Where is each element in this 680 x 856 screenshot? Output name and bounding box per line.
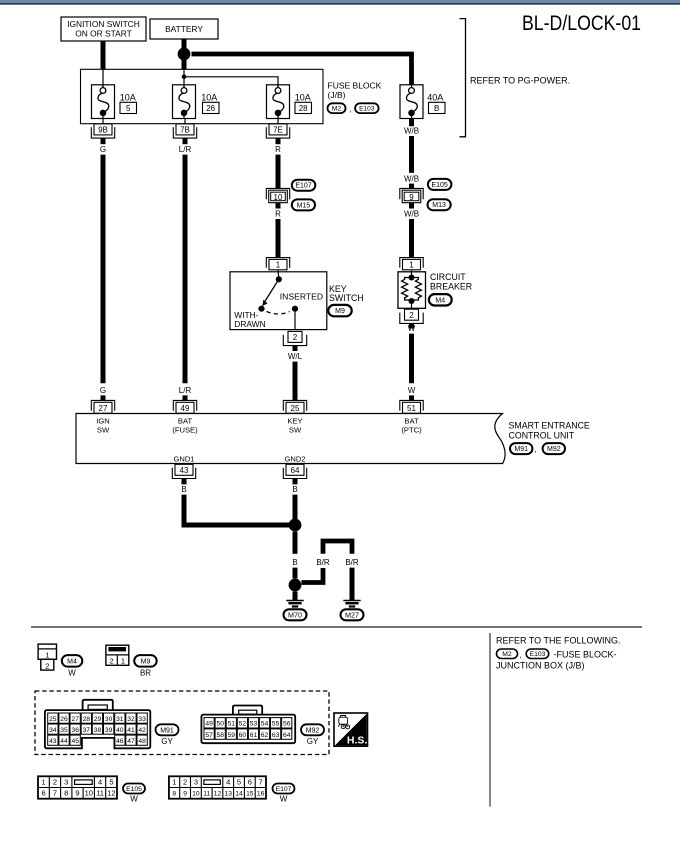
- svg-text:12: 12: [214, 791, 222, 798]
- wire B/R upper run: [323, 541, 352, 554]
- svg-text:B/R: B/R: [316, 558, 330, 567]
- svg-text:M2: M2: [502, 651, 512, 658]
- svg-text:55: 55: [272, 721, 280, 728]
- svg-text:BL-D/LOCK-01: BL-D/LOCK-01: [522, 12, 641, 35]
- svg-text:26: 26: [60, 716, 68, 723]
- svg-text:54: 54: [261, 721, 269, 728]
- label SMART ENTRANCE CONTROL UNIT: [509, 421, 590, 441]
- connector ref E105: [428, 179, 452, 190]
- svg-text:10: 10: [85, 789, 93, 798]
- svg-text:46: 46: [116, 738, 124, 745]
- svg-text:E103: E103: [530, 651, 546, 658]
- svg-text:51: 51: [407, 404, 416, 413]
- svg-text:(PTC): (PTC): [401, 425, 422, 434]
- svg-text:REFER TO PG-POWER.: REFER TO PG-POWER.: [470, 75, 570, 85]
- junction ground splice: [289, 579, 302, 592]
- svg-text:10A: 10A: [201, 92, 217, 102]
- svg-text:44: 44: [60, 738, 68, 745]
- svg-text:1: 1: [42, 778, 46, 787]
- wire battery junction to 40A fuse: [192, 54, 412, 85]
- smart entrance control unit box: [76, 414, 505, 464]
- wire R down to key switch: [276, 219, 281, 258]
- svg-text:1: 1: [409, 261, 414, 270]
- svg-text:30: 30: [105, 716, 113, 723]
- svg-text:M70: M70: [288, 611, 302, 620]
- wire battery to junction: [182, 39, 187, 54]
- svg-text:ON OR START: ON OR START: [75, 29, 131, 39]
- junction B wires: [289, 519, 302, 532]
- svg-text:B: B: [434, 104, 439, 113]
- wire R stub below connector 10: [276, 203, 281, 209]
- svg-text:6: 6: [42, 789, 46, 798]
- svg-text:E105: E105: [431, 182, 447, 189]
- svg-text:-FUSE BLOCK-: -FUSE BLOCK-: [554, 649, 617, 659]
- connector ref M15: [292, 199, 315, 210]
- svg-text:G: G: [100, 386, 106, 395]
- svg-text:9: 9: [409, 193, 414, 202]
- svg-text:36: 36: [71, 727, 79, 734]
- circuit breaker pin 2: [400, 309, 423, 323]
- connector ref E107: [292, 180, 316, 191]
- connector ref M4: [429, 294, 452, 305]
- svg-text:7: 7: [53, 789, 57, 798]
- svg-text:GY: GY: [307, 737, 319, 746]
- svg-text:31: 31: [116, 716, 124, 723]
- svg-text:SW: SW: [97, 425, 110, 434]
- svg-text:M13: M13: [432, 202, 446, 209]
- svg-text:1: 1: [45, 651, 49, 660]
- svg-text:64: 64: [283, 732, 291, 739]
- svg-text:11: 11: [96, 789, 104, 798]
- connector ref M9 (legend): [134, 655, 157, 667]
- svg-text:5: 5: [237, 778, 241, 787]
- wire B from pin 64 down: [293, 495, 298, 525]
- svg-text:1: 1: [121, 656, 125, 665]
- svg-text:W: W: [280, 794, 288, 803]
- fuse block (J/B) outline: [81, 69, 324, 123]
- label FUSE BLOCK (J/B): [328, 81, 382, 100]
- wire B stub below pin 43: [182, 479, 187, 485]
- key switch KEY SWITCH M9: [230, 270, 327, 330]
- wire G stub into pin 27: [101, 395, 106, 400]
- svg-text:,: ,: [520, 650, 522, 659]
- pin 64 GND2: [283, 464, 306, 478]
- svg-text:SW: SW: [289, 425, 302, 434]
- pin 25 KEY SW: [283, 400, 306, 413]
- svg-text:2: 2: [293, 333, 298, 342]
- svg-text:56: 56: [283, 721, 291, 728]
- svg-text:M92: M92: [306, 727, 320, 734]
- svg-text:60: 60: [239, 732, 247, 739]
- wire 40A fuse outlet: [409, 119, 414, 127]
- fuse block internal feed wires: [103, 69, 278, 87]
- wire W/B down to connector M13/E105: [409, 136, 414, 173]
- label CIRCUIT BREAKER: [430, 272, 472, 291]
- svg-text:W: W: [408, 386, 416, 395]
- svg-text:B: B: [292, 558, 297, 567]
- wire R stub below 7E: [276, 138, 281, 144]
- svg-text:W/B: W/B: [404, 175, 419, 184]
- svg-text:2: 2: [183, 778, 187, 787]
- svg-text:8: 8: [64, 789, 68, 798]
- fuse F3 10A (fuse 28): [267, 85, 290, 119]
- svg-text:KEY: KEY: [287, 417, 302, 426]
- svg-text:1: 1: [172, 778, 176, 787]
- circuit breaker pin 1: [400, 258, 423, 270]
- svg-text:B: B: [292, 485, 297, 494]
- connector ref M2 (legend): [497, 649, 518, 659]
- svg-text:13: 13: [224, 791, 232, 798]
- svg-text:M27: M27: [345, 611, 359, 620]
- svg-text:59: 59: [228, 732, 236, 739]
- connector ref M91: [510, 443, 532, 454]
- svg-text:BR: BR: [140, 669, 151, 678]
- svg-text:63: 63: [272, 732, 280, 739]
- svg-text:50: 50: [216, 721, 224, 728]
- connector ref E105 (legend): [123, 784, 145, 794]
- wire W down to control unit: [409, 334, 414, 384]
- svg-text:10A: 10A: [295, 92, 311, 102]
- wire B from pin 43 down: [182, 495, 187, 528]
- svg-text:64: 64: [291, 466, 300, 475]
- wire W stub into pin 51: [409, 395, 414, 400]
- svg-text:M4: M4: [435, 297, 445, 304]
- svg-text:49: 49: [205, 721, 213, 728]
- svg-text:E105: E105: [126, 786, 142, 793]
- svg-text:2: 2: [45, 661, 49, 670]
- svg-text:14: 14: [235, 791, 243, 798]
- connector ref M92 (legend): [301, 724, 324, 735]
- wire R down to connector M15/E107: [276, 155, 281, 189]
- svg-text:34: 34: [49, 727, 57, 734]
- wire L/R down to control unit: [183, 155, 188, 384]
- svg-text:1: 1: [276, 261, 281, 270]
- wire W/L down to pin 25: [293, 362, 298, 401]
- svg-text:40A: 40A: [427, 92, 443, 102]
- svg-text:3: 3: [64, 778, 68, 787]
- wire B/R down to ground M27: [350, 568, 355, 601]
- labels GND1 GND2: [173, 454, 305, 463]
- svg-text:48: 48: [138, 738, 146, 745]
- svg-text:GND2: GND2: [284, 454, 305, 463]
- legend connector M91 grid pins 25-48: [45, 700, 150, 749]
- svg-text:62: 62: [261, 732, 269, 739]
- svg-text:45: 45: [71, 738, 79, 745]
- wire G down to control unit: [101, 155, 106, 384]
- svg-text:W/B: W/B: [404, 127, 419, 136]
- svg-text:40: 40: [116, 727, 124, 734]
- svg-text:M4: M4: [67, 658, 77, 665]
- svg-text:BREAKER: BREAKER: [430, 281, 472, 291]
- wire fuse F1 outlet: [102, 119, 104, 125]
- svg-text:W: W: [130, 794, 138, 803]
- fuse F4 40A (fusible link B): [400, 85, 423, 119]
- svg-text:39: 39: [105, 727, 113, 734]
- wire W/B stub above connector 9: [409, 184, 414, 189]
- svg-text:BAT: BAT: [178, 417, 193, 426]
- wire B stub below pin 64: [293, 479, 298, 485]
- connector ref E103 (legend): [526, 649, 549, 659]
- svg-text:L/R: L/R: [179, 386, 192, 395]
- svg-text:52: 52: [239, 721, 247, 728]
- svg-text:32: 32: [127, 716, 135, 723]
- svg-text:42: 42: [138, 727, 146, 734]
- svg-text:BATTERY: BATTERY: [165, 24, 203, 34]
- circuit breaker M4: [398, 270, 426, 309]
- svg-text:47: 47: [127, 738, 135, 745]
- svg-text:4: 4: [98, 778, 102, 787]
- svg-text:E107: E107: [295, 183, 311, 190]
- svg-text:IGN: IGN: [96, 417, 110, 426]
- svg-text:11: 11: [203, 791, 210, 798]
- fuse F2 10A (fuse 26): [173, 85, 196, 119]
- svg-text:W: W: [68, 669, 76, 678]
- wire W/B down to circuit breaker: [409, 219, 414, 258]
- svg-text:12: 12: [107, 789, 115, 798]
- wire ignition switch to fuse block: [101, 41, 106, 69]
- icon H.S. view direction: [334, 713, 368, 747]
- svg-text:4: 4: [226, 778, 230, 787]
- svg-text:7E: 7E: [273, 126, 283, 135]
- svg-text:G: G: [100, 145, 106, 154]
- svg-text:5: 5: [109, 778, 113, 787]
- svg-text:51: 51: [228, 721, 236, 728]
- svg-text:41: 41: [127, 727, 135, 734]
- svg-text:REFER TO THE FOLLOWING.: REFER TO THE FOLLOWING.: [496, 636, 621, 646]
- svg-text:5: 5: [126, 104, 131, 113]
- label KEY SWITCH: [329, 284, 364, 303]
- label 10A fuse 28: [295, 92, 312, 113]
- key switch pin 1: [266, 258, 289, 270]
- wire B/R from splice up-over to M27: [301, 568, 323, 583]
- wire G stub below 9B: [101, 138, 106, 144]
- connector ref E103: [355, 103, 379, 113]
- pin labels top: [96, 417, 422, 435]
- svg-text:10: 10: [192, 791, 200, 798]
- svg-text:43: 43: [180, 466, 189, 475]
- legend connector M9 pins 2-1: [106, 645, 129, 665]
- connector 7E: [266, 124, 289, 138]
- label 40A fuse B: [427, 92, 445, 113]
- svg-text:61: 61: [250, 732, 258, 739]
- wire W/B stub below connector 9: [409, 203, 414, 209]
- connector ref M2: [328, 103, 346, 113]
- svg-text:GND1: GND1: [173, 454, 194, 463]
- wire W stub below circuit breaker: [409, 323, 414, 328]
- svg-text:25: 25: [49, 716, 57, 723]
- svg-text:2: 2: [110, 656, 114, 665]
- wire battery junction into fuse block: [182, 58, 187, 69]
- svg-text:53: 53: [250, 721, 258, 728]
- svg-text:28: 28: [299, 104, 308, 113]
- svg-text:38: 38: [94, 727, 102, 734]
- label 10A fuse 5: [120, 92, 137, 113]
- svg-text:43: 43: [49, 738, 57, 745]
- svg-text:37: 37: [83, 727, 91, 734]
- svg-text:7: 7: [259, 778, 263, 787]
- connector ref M13: [428, 199, 451, 210]
- svg-text:58: 58: [216, 732, 224, 739]
- svg-text:9B: 9B: [98, 126, 108, 135]
- key switch pin 2: [283, 331, 306, 345]
- label 10A fuse 26: [201, 92, 219, 113]
- connector 7B: [173, 124, 196, 138]
- bracket REFER TO PG-POWER: [460, 19, 466, 137]
- svg-text:29: 29: [94, 716, 102, 723]
- svg-text:15: 15: [246, 791, 254, 798]
- svg-text:2: 2: [409, 311, 414, 320]
- connector 9 (E105-M13 junction): [400, 188, 423, 202]
- fuse F1 10A (fuse 5): [92, 85, 115, 119]
- wire fuse F2 outlet: [184, 119, 186, 125]
- svg-text:BAT: BAT: [404, 417, 419, 426]
- connector ref M4 (legend): [62, 655, 83, 667]
- svg-text:28: 28: [83, 716, 91, 723]
- pin 49 BAT (FUSE): [173, 400, 196, 413]
- svg-text:26: 26: [206, 104, 215, 113]
- svg-text:(FUSE): (FUSE): [172, 425, 198, 434]
- legend connector M4 pins 1-2: [38, 644, 56, 670]
- connector ref M92: [543, 443, 565, 454]
- wire B below junction: [293, 531, 298, 553]
- svg-text:W/L: W/L: [288, 352, 303, 361]
- ground M27: [341, 601, 364, 621]
- svg-text:8: 8: [172, 791, 176, 798]
- svg-text:9: 9: [75, 789, 79, 798]
- svg-text:B: B: [181, 485, 186, 494]
- svg-text:10A: 10A: [120, 92, 136, 102]
- svg-text:3: 3: [194, 778, 198, 787]
- svg-text:H.S.: H.S.: [347, 735, 368, 747]
- pin 43 GND1: [172, 464, 195, 478]
- wire L/R stub below 7B: [183, 138, 188, 144]
- separator vertical: [489, 633, 491, 807]
- svg-text:27: 27: [99, 404, 108, 413]
- junction battery feed: [178, 48, 191, 61]
- svg-text:R: R: [275, 210, 281, 219]
- svg-text:L/R: L/R: [179, 145, 192, 154]
- svg-text:DRAWN: DRAWN: [234, 319, 265, 329]
- pin 27 IGN SW: [91, 400, 114, 413]
- wire B across to junction: [184, 523, 295, 528]
- svg-text:GY: GY: [161, 737, 173, 746]
- svg-text:6: 6: [248, 778, 252, 787]
- svg-text:49: 49: [181, 404, 190, 413]
- svg-text:INSERTED: INSERTED: [280, 292, 323, 302]
- svg-text:M15: M15: [297, 202, 311, 209]
- svg-text:R: R: [275, 145, 281, 154]
- svg-text:JUNCTION BOX (J/B): JUNCTION BOX (J/B): [496, 661, 585, 671]
- separator line: [31, 626, 642, 628]
- node BATTERY: [150, 19, 218, 39]
- wire B to ground junction: [293, 568, 298, 579]
- svg-text:,: ,: [535, 445, 537, 454]
- svg-text:M9: M9: [141, 658, 151, 665]
- wire W/L stub below key switch: [293, 346, 298, 351]
- legend connector E105 grid pins 1-12: [38, 776, 117, 798]
- svg-text:(J/B): (J/B): [328, 90, 346, 100]
- dashed detail box: [35, 691, 329, 755]
- svg-text:27: 27: [71, 716, 79, 723]
- node IGNITION SWITCH ON OR START: [61, 17, 146, 41]
- connector ref M91 (legend): [156, 724, 179, 735]
- legend connector E107 grid pins 1-16: [169, 776, 266, 798]
- wire L/R stub into pin 49: [183, 395, 188, 400]
- svg-text:W/B: W/B: [404, 210, 419, 219]
- svg-text:SMART ENTRANCE: SMART ENTRANCE: [509, 421, 590, 431]
- wire B stub to ground M70: [293, 591, 298, 600]
- connector 10 (E107-M15 junction): [266, 188, 289, 202]
- svg-text:M91: M91: [160, 727, 174, 734]
- svg-text:25: 25: [291, 404, 300, 413]
- ground M70: [284, 601, 307, 621]
- svg-text:M91: M91: [514, 446, 528, 453]
- svg-text:E103: E103: [359, 106, 375, 113]
- svg-text:57: 57: [205, 732, 213, 739]
- legend connector M92 grid pins 49-64: [201, 706, 295, 744]
- svg-text:2: 2: [53, 778, 57, 787]
- wire fuse F3 outlet: [277, 119, 279, 125]
- svg-text:M92: M92: [547, 446, 561, 453]
- svg-text:W: W: [408, 324, 416, 333]
- svg-text:SWITCH: SWITCH: [329, 293, 364, 303]
- connector 9B: [91, 124, 114, 138]
- svg-text:B/R: B/R: [345, 558, 359, 567]
- svg-text:M9: M9: [335, 308, 345, 315]
- svg-text:10: 10: [274, 193, 283, 202]
- svg-text:7B: 7B: [180, 126, 190, 135]
- svg-text:35: 35: [60, 727, 68, 734]
- svg-text:33: 33: [138, 716, 146, 723]
- svg-text:9: 9: [183, 791, 187, 798]
- svg-text:CONTROL UNIT: CONTROL UNIT: [509, 430, 575, 440]
- connector ref M9: [328, 305, 351, 316]
- svg-text:M2: M2: [332, 106, 342, 113]
- svg-text:,: ,: [350, 105, 352, 114]
- pin 51 BAT (PTC): [400, 400, 423, 413]
- svg-text:16: 16: [257, 791, 265, 798]
- connector ref E107 (legend): [273, 784, 295, 794]
- svg-text:E107: E107: [276, 786, 292, 793]
